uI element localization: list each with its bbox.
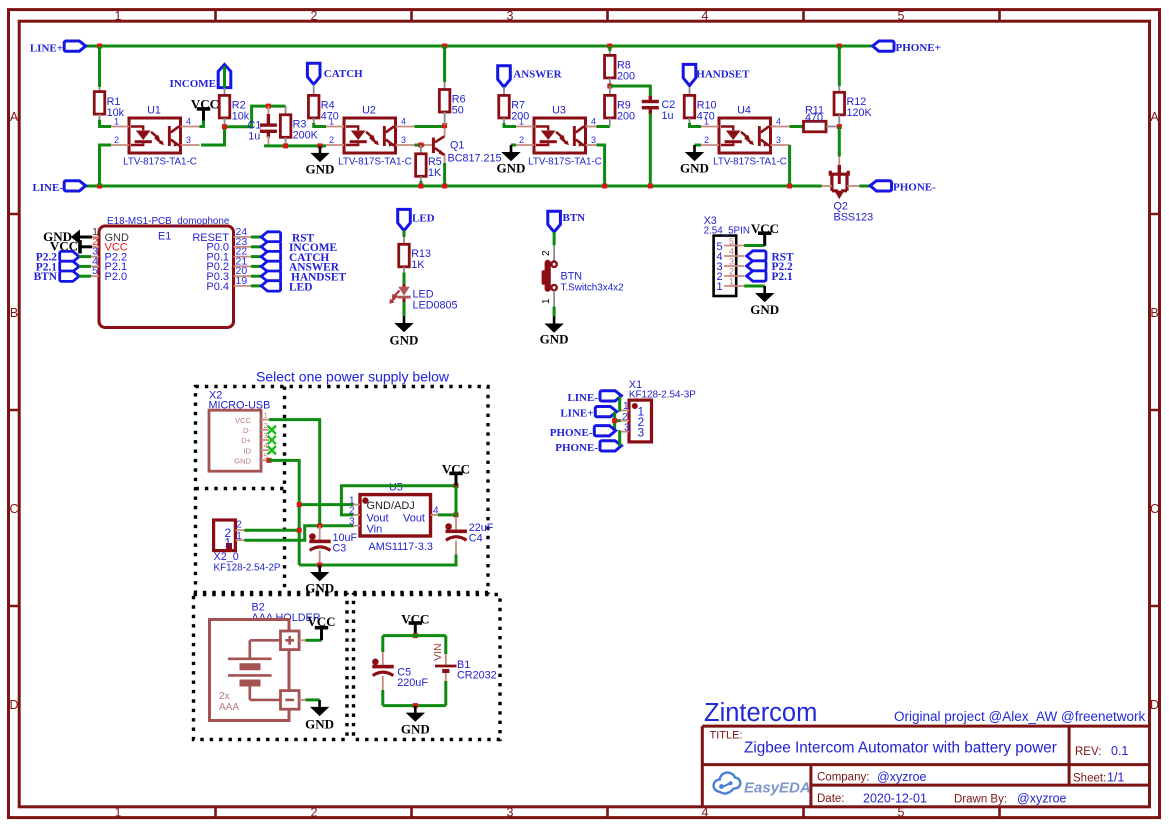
wire: C2 bottom to rail: [649, 114, 652, 187]
wire: R2 bottom node to C1/R3 top: [225, 106, 286, 127]
port flag HANDSET: [683, 64, 696, 85]
svg-text:C: C: [1150, 502, 1159, 516]
junction: U4 pin3 rail: [787, 184, 792, 189]
junction: C2 rail: [648, 184, 653, 189]
svg-text:U3: U3: [552, 105, 566, 117]
svg-text:D: D: [1150, 698, 1159, 712]
port flag P2.1 (X3): [747, 271, 766, 281]
svg-text:C3: C3: [333, 543, 347, 555]
svg-text:2: 2: [541, 250, 552, 256]
wire: HANDSET to R10: [689, 87, 691, 95]
wire: CATCH to R4: [313, 84, 315, 95]
svg-text:1/1: 1/1: [1107, 771, 1124, 785]
svg-text:PHONE-: PHONE-: [555, 442, 598, 454]
svg-text:4: 4: [401, 117, 406, 127]
junction: ground rail / C3: [317, 563, 322, 568]
wire: top rail LINE+ / PHONE+ net: [85, 45, 872, 48]
frame column numbers top: [115, 9, 905, 23]
svg-text:1: 1: [704, 117, 709, 127]
wire: top rail to R12: [838, 46, 841, 86]
svg-text:AAA: AAA: [219, 702, 239, 713]
resistor R5 1K: [420, 145, 422, 154]
svg-text:D+: D+: [241, 436, 251, 445]
optocoupler U4 LTV-817S-TA1-C: [719, 118, 771, 153]
svg-text:A: A: [10, 110, 19, 124]
wire: U5 pin4 Vout to VCC column: [438, 513, 456, 516]
svg-text:Zintercom: Zintercom: [704, 699, 817, 727]
wire: top rail to R6: [443, 46, 446, 82]
svg-text:LTV-817S-TA1-C: LTV-817S-TA1-C: [713, 156, 787, 167]
svg-text:220uF: 220uF: [397, 677, 428, 689]
E1 right pin names: [192, 232, 229, 293]
svg-text:C4: C4: [469, 533, 483, 545]
svg-text:ID: ID: [243, 446, 251, 455]
wire: R8/R9 node to C2: [610, 86, 651, 98]
junction: R8/R9/C2 node: [607, 84, 612, 89]
svg-text:GND: GND: [680, 161, 709, 176]
X3 pin numbers (left, blue): [717, 241, 723, 293]
wire: ANSWER to R7: [503, 87, 505, 95]
junction: coin cell GND: [413, 703, 418, 708]
svg-text:C: C: [9, 502, 18, 516]
wire: switch pin1 to GND: [553, 291, 555, 307]
svg-text:1: 1: [115, 806, 122, 820]
port flag RST (E1 right): [251, 236, 261, 239]
svg-text:4: 4: [702, 9, 709, 23]
svg-text:3: 3: [638, 426, 645, 440]
EasyEDA logo cloud: [714, 773, 741, 794]
svg-text:GND: GND: [306, 162, 335, 177]
port flag LED (top of R13): [398, 209, 411, 230]
junction: top rail R6: [442, 44, 447, 49]
ground symbol below switch: [544, 317, 563, 333]
svg-text:50: 50: [452, 104, 464, 116]
svg-text:1: 1: [225, 536, 232, 550]
dotted selection box: power supply group: [196, 387, 489, 593]
svg-text:1: 1: [729, 276, 734, 286]
resistor R7 200: [499, 95, 510, 118]
connector X2_0 KF128-2.54-2P body: [214, 520, 236, 551]
frame row ticks left: [9, 214, 20, 606]
svg-text:GND/ADJ: GND/ADJ: [367, 500, 415, 512]
junction: Q1 emitter rail: [442, 184, 447, 189]
wire: LINE- to X1 pin1: [620, 397, 621, 411]
wire: R1 bottom to U1 pin1: [99, 114, 101, 121]
E1 right pin stubs: [234, 237, 252, 286]
svg-text:BTN: BTN: [563, 212, 586, 224]
wire: VCC column down to C4: [455, 486, 458, 517]
wire: R10 bottom to U4 pin1: [690, 123, 702, 127]
svg-text:B: B: [10, 306, 18, 320]
svg-text:Sheet:: Sheet:: [1073, 773, 1106, 785]
wire: R1 top: [98, 46, 101, 87]
svg-text:CATCH: CATCH: [324, 68, 363, 80]
svg-text:200: 200: [617, 70, 635, 82]
svg-text:Original project @Alex_AW @fre: Original project @Alex_AW @freenetwork: [894, 709, 1145, 724]
battery cells glyph inside B2: [228, 640, 281, 700]
svg-text:LED0805: LED0805: [413, 300, 458, 312]
junction: ground column / U5 pin1: [297, 502, 302, 507]
svg-text:U2: U2: [362, 105, 376, 117]
wire: LINE+ / PHONE- to X1 pin2: [615, 412, 621, 431]
connector X2 MICRO-USB body: [209, 410, 261, 471]
svg-text:Vout: Vout: [403, 512, 425, 524]
svg-text:E18-MS1-PCB_domophone: E18-MS1-PCB_domophone: [107, 216, 230, 227]
svg-text:U1: U1: [147, 105, 161, 117]
junction: Q1 base / R5: [418, 143, 423, 148]
svg-text:ANSWER: ANSWER: [513, 69, 562, 81]
svg-text:LINE-: LINE-: [32, 182, 63, 194]
junction: VCC column / pin4: [454, 512, 459, 517]
junction: R11/R12/Q2 gate node: [837, 124, 842, 129]
junction: top rail R8: [607, 44, 612, 49]
optocoupler U3 LTV-817S-TA1-C: [534, 118, 586, 153]
svg-text:AMS1117-3.3: AMS1117-3.3: [369, 541, 433, 553]
junction: C1 top: [266, 104, 271, 109]
regulator U5 AMS1117-3.3 body: [360, 495, 431, 536]
transistor Q2 BSS123: [830, 165, 848, 191]
svg-text:VIN: VIN: [432, 643, 444, 661]
dotted divider: horizontal (usb cell): [196, 487, 285, 490]
svg-text:B: B: [1150, 306, 1158, 320]
transistor Q1 BC817.215: [424, 144, 432, 146]
junction: VCC column top: [454, 483, 459, 488]
port flag RST (X3): [747, 251, 766, 261]
svg-text:PHONE-: PHONE-: [550, 427, 593, 439]
E1 left pin names: [105, 232, 130, 283]
E1 left pin stubs: [91, 237, 99, 276]
svg-text:4: 4: [729, 246, 734, 256]
svg-text:Select one power supply below: Select one power supply below: [256, 369, 450, 385]
svg-text:P2.1: P2.1: [772, 271, 794, 283]
title block grid lines: [702, 726, 1149, 807]
svg-text:4: 4: [702, 806, 709, 820]
svg-text:GND: GND: [390, 333, 419, 348]
svg-text:4: 4: [776, 117, 781, 127]
E1 left pin numbers: [92, 226, 98, 277]
svg-text:LED: LED: [289, 281, 312, 293]
junction: U3 pin3 rail: [602, 184, 607, 189]
svg-text:2: 2: [311, 9, 318, 23]
svg-text:Q1: Q1: [450, 140, 464, 152]
ground symbol at U2 pin2: [310, 146, 329, 162]
wire: R2 node down to U1 pin3: [201, 127, 225, 145]
resistor R8 200: [605, 55, 616, 78]
svg-text:200: 200: [617, 110, 635, 122]
svg-text:3: 3: [729, 256, 734, 266]
frame row ticks right: [1150, 214, 1160, 606]
X3 pin stubs: [724, 246, 744, 287]
wire: C1/R3 bottom to U2 pin2 / GND: [264, 144, 326, 147]
svg-text:4: 4: [591, 117, 596, 127]
svg-text:1: 1: [541, 298, 552, 304]
wire: Q2 right pin to PHONE-: [847, 185, 859, 187]
svg-text:1: 1: [114, 117, 119, 127]
frame column ticks bottom: [216, 807, 1000, 818]
junction: GND tap at U2 pin2: [318, 143, 323, 148]
power flag VCC at B2 plus: [299, 639, 305, 641]
port flag HANDSET (E1 right): [251, 275, 261, 278]
wire: top rail to R8: [608, 46, 611, 51]
svg-text:1u: 1u: [662, 110, 674, 122]
E1 right pin numbers: [236, 226, 248, 287]
svg-text:4: 4: [264, 441, 268, 450]
svg-text:2: 2: [622, 412, 628, 423]
port flag BTN (top of switch): [548, 211, 561, 232]
svg-text:Date:: Date:: [817, 793, 845, 805]
resistor R6 50: [439, 90, 450, 113]
resistor R12 120K: [834, 92, 845, 115]
wire: bottom rail LINE- / PHONE- net: [85, 185, 822, 188]
svg-text:1K: 1K: [411, 259, 425, 271]
ground symbol (coin cell box): [406, 706, 425, 722]
junction: ground column X2_0 pin2: [297, 528, 302, 533]
no-connect cross X2 pin ID: [268, 446, 276, 454]
svg-text:Company:: Company:: [817, 772, 869, 784]
svg-text:EasyEDA: EasyEDA: [744, 780, 811, 797]
svg-text:3: 3: [507, 806, 514, 820]
junction: LINE- / U1 pin2 column: [97, 184, 102, 189]
wire: rail to Q2 left pin: [822, 185, 832, 187]
svg-text:2020-12-01: 2020-12-01: [863, 792, 927, 806]
capacitor C5 220uF: [372, 659, 394, 676]
LED LED0805: [403, 284, 406, 287]
wire: U3 pin4 to R9 bottom: [597, 125, 610, 128]
wire: X2 GND down to ground rail: [269, 460, 299, 565]
wire: U5 pin2 Vout up over to VCC column: [341, 486, 456, 515]
wire: gate node down to Q2: [838, 127, 841, 157]
dotted divider: vertical: [283, 387, 286, 593]
svg-text:2.54_5PIN: 2.54_5PIN: [704, 225, 750, 236]
svg-text:5: 5: [898, 9, 905, 23]
connector X3 2.54_5PIN body: [714, 236, 737, 296]
port flag CATCH (E1 right): [251, 255, 261, 258]
svg-text:200K: 200K: [293, 129, 319, 141]
ground symbol at U3 pin2: [511, 144, 516, 147]
resistor R11 470 (horizontal): [804, 121, 827, 132]
ground symbol at U4 pin2: [695, 144, 702, 147]
svg-text:1: 1: [264, 411, 268, 420]
svg-text:LINE+: LINE+: [560, 408, 593, 420]
port flag PHONE-: [870, 181, 891, 191]
svg-text:REV:: REV:: [1075, 746, 1101, 758]
X2 pin numbers: [264, 411, 268, 461]
wire: U1 pin2 to LINE-: [100, 145, 112, 186]
svg-text:MICRO-USB: MICRO-USB: [209, 399, 271, 411]
wire: coin cell bottom rail: [383, 704, 446, 707]
wire: X2_0 pin1 up to Vin net: [244, 526, 353, 540]
junction: Q1 collector / R6 / U2 pin4: [442, 123, 447, 128]
resistor R9 200: [609, 86, 611, 96]
junction: R3 bottom: [283, 143, 288, 148]
svg-text:1: 1: [717, 281, 723, 293]
svg-text:120K: 120K: [847, 107, 873, 119]
svg-text:BTN: BTN: [561, 271, 583, 283]
port flag CATCH: [307, 63, 320, 84]
port flag ANSWER (E1 right): [251, 265, 261, 268]
svg-text:3: 3: [186, 135, 191, 145]
svg-text:GND: GND: [305, 717, 334, 732]
ground symbol power rail: [310, 565, 329, 581]
svg-text:3: 3: [591, 135, 596, 145]
svg-text:LTV-817S-TA1-C: LTV-817S-TA1-C: [123, 156, 197, 167]
junction: coin cell VCC: [413, 633, 418, 638]
svg-text:2: 2: [311, 806, 318, 820]
junction: top rail R12: [837, 44, 842, 49]
svg-text:1u: 1u: [248, 130, 260, 142]
wire: INCOME to R2: [223, 66, 226, 88]
wire: U4 pin4 to R11: [790, 125, 804, 128]
svg-text:D: D: [9, 698, 18, 712]
svg-text:KF128-2.54-3P: KF128-2.54-3P: [629, 390, 696, 401]
wire: U4 pin3 down to rail: [788, 145, 791, 186]
svg-text:T.Switch3x4x2: T.Switch3x4x2: [561, 283, 624, 294]
resistor R10 470: [684, 95, 695, 118]
svg-text:P2.0: P2.0: [105, 271, 128, 283]
optocoupler U1 LTV-817S-TA1-C: [129, 118, 181, 153]
wire: BTN flag to switch pin2: [553, 232, 556, 245]
svg-text:@xyzroe: @xyzroe: [877, 770, 927, 784]
switch BTN T.Switch3x4x2: [551, 262, 556, 267]
svg-text:D-: D-: [243, 426, 251, 435]
wire: coin cell top rail: [383, 634, 446, 637]
svg-text:LTV-817S-TA1-C: LTV-817S-TA1-C: [338, 156, 412, 167]
svg-text:LINE+: LINE+: [30, 42, 63, 54]
svg-text:1K: 1K: [428, 167, 442, 179]
svg-text:GND: GND: [497, 161, 526, 176]
ground symbol at X3 pin1: [744, 285, 765, 288]
junction: X1 pin2: [612, 418, 617, 423]
junction: X2 GND pin: [267, 458, 272, 463]
svg-text:3: 3: [401, 135, 406, 145]
X2 pin stubs: [261, 420, 269, 461]
svg-text:KF128-2.54-2P: KF128-2.54-2P: [214, 562, 281, 573]
no-connect cross X2 pin D-: [268, 426, 276, 434]
svg-text:PHONE+: PHONE+: [896, 42, 941, 54]
svg-text:2: 2: [704, 135, 709, 145]
optocoupler U2 LTV-817S-TA1-C: [344, 118, 396, 153]
module E1 E18-MS1-PCB_domophone body: [99, 226, 234, 328]
wire: C5 branch: [381, 636, 384, 652]
wire: R13 to LED anode: [403, 273, 406, 286]
wire: U2 pin3 to Q1 base node: [415, 144, 425, 147]
junction: R5 bottom rail: [418, 184, 423, 189]
resistor R1: [94, 92, 105, 115]
resistor R4 470: [308, 95, 319, 118]
svg-text:Zigbee Intercom Automator with: Zigbee Intercom Automator with battery p…: [744, 740, 1057, 757]
svg-text:3: 3: [776, 135, 781, 145]
svg-text:2: 2: [519, 135, 524, 145]
svg-text:X2_0: X2_0: [214, 551, 239, 563]
svg-text:1: 1: [329, 117, 334, 127]
svg-text:3: 3: [264, 431, 268, 440]
wire: U3 pin3 down to rail: [597, 145, 605, 186]
svg-text:LED: LED: [412, 213, 435, 225]
wire: X2 VCC to U5 Vin column: [269, 420, 320, 525]
svg-text:2: 2: [114, 135, 119, 145]
svg-text:GND: GND: [305, 581, 334, 596]
port flag P2.2 (X3): [747, 261, 766, 271]
svg-text:2x: 2x: [219, 691, 230, 702]
svg-text:3: 3: [507, 9, 514, 23]
port flag PHONE+: [873, 41, 894, 51]
power flag VCC at X3 pin5: [744, 244, 765, 247]
svg-text:GND: GND: [234, 457, 251, 466]
svg-text:2: 2: [729, 266, 734, 276]
ground symbol at B2 minus: [299, 699, 305, 701]
svg-text:LTV-817S-TA1-C: LTV-817S-TA1-C: [528, 156, 602, 167]
svg-text:VCC: VCC: [235, 416, 252, 425]
svg-text:BTN: BTN: [34, 271, 58, 283]
frame row letters left: [9, 110, 18, 712]
X3 pad numbers (pale): [729, 236, 734, 286]
frame column ticks top: [216, 10, 1000, 22]
wire: PHONE- up to X1 pin3: [620, 432, 621, 446]
svg-text:U5: U5: [389, 482, 403, 494]
svg-text:U4: U4: [737, 105, 751, 117]
connector X1 KF128-2.54-3P body: [629, 400, 652, 442]
resistor R3 200K: [285, 106, 287, 115]
wire: X2_0 pin2 to ground column: [244, 529, 299, 532]
frame column numbers bottom: [115, 806, 905, 820]
no-connect cross X2 pin D+: [268, 436, 276, 444]
svg-text:5: 5: [898, 806, 905, 820]
port flag LED (E1 right): [251, 284, 261, 287]
capacitor C3 10uF: [319, 526, 321, 540]
junction: LINE+ / R1 column: [97, 44, 102, 49]
svg-text:INCOME: INCOME: [170, 78, 216, 90]
svg-text:Vin: Vin: [367, 523, 383, 535]
svg-text:CR2032: CR2032: [457, 669, 497, 681]
junction: Vin / C3 top: [317, 523, 322, 528]
svg-text:GND: GND: [750, 302, 779, 317]
port flag INCOME (E1 right): [251, 245, 261, 248]
battery B1 CR2032: [435, 665, 457, 668]
svg-text:Drawn By:: Drawn By:: [954, 794, 1007, 806]
resistor R2: [219, 95, 230, 118]
wire: C4 bottom to ground rail: [299, 555, 456, 566]
wire: R7 bottom to U3 pin1: [504, 123, 516, 127]
svg-text:P0.4: P0.4: [206, 281, 229, 293]
capacitor C2 1u: [649, 96, 652, 101]
svg-text:0.1: 0.1: [1111, 744, 1128, 758]
svg-text:GND: GND: [401, 722, 430, 737]
ground symbol below LED: [394, 316, 413, 332]
dotted selection box: AAA battery: [194, 595, 348, 740]
wire: LED cathode to GND: [403, 302, 406, 316]
svg-text:PHONE-: PHONE-: [893, 182, 936, 194]
svg-text:2: 2: [236, 520, 242, 531]
svg-text:470: 470: [805, 112, 823, 124]
svg-text:A: A: [1150, 110, 1159, 124]
svg-text:4: 4: [186, 117, 191, 127]
svg-text:LINE-: LINE-: [567, 392, 598, 404]
svg-text:TITLE:: TITLE:: [710, 730, 743, 742]
capacitor C1 1u: [267, 106, 269, 115]
wire: U5 pin1 GND/ADJ to ground column: [299, 503, 353, 506]
svg-text:GND: GND: [540, 332, 569, 347]
capacitor C4 22uF: [445, 523, 467, 540]
resistor R13 1K: [399, 244, 410, 266]
svg-text:2: 2: [264, 421, 268, 430]
wire: LED flag to R13: [403, 231, 406, 237]
wire: R4 bottom to U2 pin1: [314, 123, 326, 127]
svg-text:1: 1: [115, 9, 122, 23]
X2 pin names: [234, 416, 251, 466]
svg-text:E1: E1: [158, 231, 171, 243]
port flag ANSWER: [498, 66, 511, 87]
svg-text:@xyzroe: @xyzroe: [1017, 792, 1067, 806]
